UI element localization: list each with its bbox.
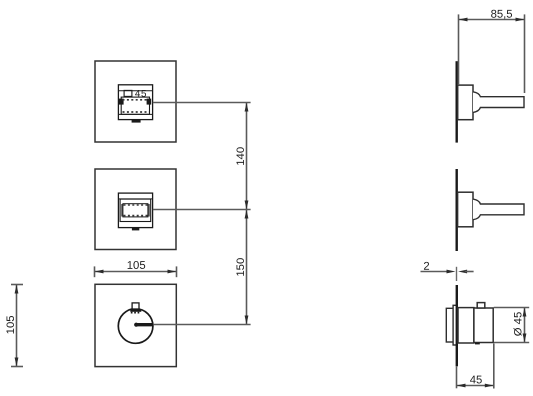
dimension 150 (between handle 2 and knob axes) bbox=[246, 210, 248, 325]
svg-text:85,5: 85,5 bbox=[491, 9, 513, 21]
side view 3: rough-in body behind wall bbox=[446, 308, 453, 342]
svg-text:45: 45 bbox=[135, 89, 147, 100]
square escutcheon plate front view 2 (middle) bbox=[95, 169, 176, 250]
side view 3: mounting flange bbox=[453, 305, 457, 345]
svg-text:Ø 45: Ø 45 bbox=[512, 312, 524, 337]
dimension 85,5 (projection of top valve) bbox=[459, 14, 525, 93]
side view 1: lever handle base bbox=[458, 85, 473, 120]
svg-text:150: 150 bbox=[235, 258, 247, 277]
dimension diameter 45 (knob) bbox=[494, 308, 529, 343]
svg-text:140: 140 bbox=[235, 147, 247, 166]
dimension 105 vertical (height of bottom plate) bbox=[11, 285, 23, 367]
lever handle front view 1 bbox=[118, 85, 152, 123]
side view 3: wall plate bbox=[456, 285, 458, 366]
leader centerline from handle 1 bbox=[153, 102, 251, 104]
extension centerline between side views bbox=[456, 267, 458, 281]
square escutcheon plate front view 1 (top) bbox=[95, 61, 176, 142]
side view 2: wall plate bbox=[456, 169, 458, 251]
svg-text:45: 45 bbox=[470, 374, 483, 386]
svg-text:105: 105 bbox=[5, 315, 17, 334]
side view 1: wall plate bbox=[456, 61, 458, 142]
side view 3: plate lower extension bbox=[456, 366, 458, 388]
thermostat knob front view bbox=[118, 303, 153, 343]
side view 1: lever stem bbox=[473, 92, 524, 113]
side view 2: lever stem bbox=[473, 199, 524, 220]
square escutcheon plate front view 3 (bottom) bbox=[95, 284, 176, 366]
side view 3: knob escutcheon section bbox=[458, 308, 474, 343]
dimension 140 (between handle 1 and handle 2 axes) bbox=[246, 103, 248, 210]
leader centerline from knob bbox=[153, 324, 250, 326]
dimension 105 horizontal (width of bottom plate) bbox=[95, 266, 177, 277]
lever handle front view 2 bbox=[118, 193, 152, 230]
side view 3: knob top tab bbox=[477, 303, 485, 308]
side view 2: lever handle base bbox=[458, 192, 473, 227]
side view 3: knob bottom nub bbox=[475, 343, 480, 345]
dimension 45 (knob projection) bbox=[457, 344, 494, 389]
svg-text:105: 105 bbox=[127, 260, 146, 272]
leader centerline from handle 2 bbox=[153, 209, 251, 211]
side view 3: knob body section bbox=[474, 308, 493, 343]
